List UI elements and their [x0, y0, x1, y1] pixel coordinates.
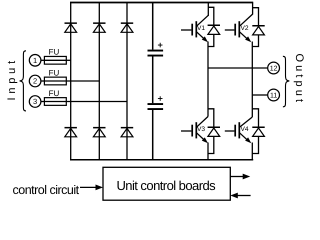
- diode of V4 (antiparallel): [252, 109, 264, 154]
- diode D5 (lower, leg 2): [93, 127, 105, 137]
- svg-text:1: 1: [33, 56, 37, 65]
- svg-text:control circuit: control circuit: [13, 183, 80, 197]
- brace: output group: [283, 56, 289, 107]
- svg-text:12: 12: [270, 64, 278, 72]
- fuse FU1: [41, 48, 66, 64]
- fuse FU2: [41, 69, 66, 85]
- box: Unit control boards: [103, 167, 230, 200]
- svg-text:FU: FU: [49, 48, 60, 57]
- svg-text:Output: Output: [293, 53, 305, 105]
- svg-text:FU: FU: [49, 69, 60, 78]
- wire: capacitor middle link: [152, 57, 154, 104]
- svg-text:FU: FU: [49, 89, 60, 98]
- wire: fuse FU2 to leg 2: [66, 80, 99, 82]
- diode D4 (lower, leg 1): [65, 127, 77, 137]
- arrow: control circuit to unit control boards: [80, 185, 103, 191]
- diode of V1 (antiparallel): [208, 7, 220, 46]
- wire: bottom DC bus: [70, 159, 253, 161]
- IGBT V3: [181, 117, 208, 144]
- svg-text:2: 2: [33, 77, 37, 86]
- wire: fuse FU3 to leg 3: [66, 101, 127, 103]
- fuse FU3: [41, 89, 66, 105]
- wire: phase B midpoint to terminal 11: [252, 94, 267, 96]
- svg-text:3: 3: [33, 98, 37, 107]
- wire: rectifier leg 2: [98, 3, 100, 160]
- arrow: feedback into unit control boards (right, pointing left): [230, 193, 250, 199]
- wire: V1 collector stub: [207, 3, 209, 16]
- diode D2 (upper, leg 2): [93, 22, 105, 32]
- capacitor C2: [148, 96, 164, 110]
- wire: rectifier leg 3: [126, 3, 128, 160]
- IGBT V2: [225, 14, 253, 42]
- terminal 12 (output): [268, 62, 280, 74]
- wire: V3 emitter to bottom bus: [207, 143, 209, 160]
- wire: V1 emitter / phase A midpoint: [207, 42, 209, 117]
- arrow: unit control boards output (right, pointing right): [230, 174, 250, 180]
- wire: capacitor leg lower: [152, 110, 154, 160]
- brace: input group: [20, 51, 26, 111]
- svg-text:V1: V1: [197, 24, 205, 32]
- wire: fuse FU1 to leg 1: [66, 59, 70, 61]
- diode D3 (upper, leg 3): [121, 22, 133, 32]
- svg-text:V3: V3: [197, 125, 205, 133]
- wire: V4 emitter to bottom bus: [251, 143, 253, 160]
- wire: V2 collector stub: [252, 3, 254, 15]
- terminal 1 (input): [29, 55, 41, 67]
- capacitor C1: [148, 43, 164, 57]
- wire: rectifier leg 1: [70, 3, 72, 160]
- terminal 11 (output): [268, 89, 280, 101]
- terminal 3 (input): [29, 96, 41, 108]
- svg-text:11: 11: [270, 91, 277, 99]
- svg-text:Input: Input: [6, 57, 18, 100]
- IGBT V4: [225, 117, 253, 143]
- wire: V2 emitter / phase B midpoint: [251, 42, 253, 118]
- svg-text:V4: V4: [241, 125, 249, 133]
- wire: capacitor leg upper: [152, 3, 154, 50]
- terminal 2 (input): [29, 75, 41, 87]
- diode D6 (lower, leg 3): [121, 127, 133, 137]
- diode of V3 (antiparallel): [208, 109, 220, 154]
- wire: top DC bus: [70, 2, 253, 4]
- diode of V2 (antiparallel): [252, 8, 264, 47]
- svg-text:Unit control boards: Unit control boards: [116, 178, 216, 193]
- IGBT V1: [181, 15, 208, 42]
- svg-text:V2: V2: [241, 24, 249, 32]
- diode D1 (upper, leg 1): [65, 22, 77, 32]
- wire: phase A midpoint to terminal 12: [208, 67, 268, 69]
